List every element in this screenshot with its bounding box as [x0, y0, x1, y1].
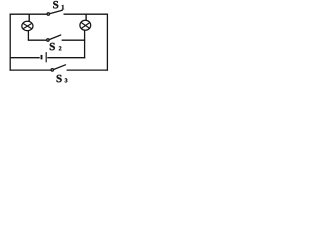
lamp L1 bottom lead — [27, 31, 29, 41]
wire: middle left segment (S2 branch) — [28, 39, 47, 41]
switch S2 terminal — [47, 39, 49, 41]
wire: middle right segment — [62, 39, 86, 41]
wire: top left segment — [10, 13, 47, 15]
wire: left border — [9, 14, 11, 71]
battery negative plate (short thick) — [41, 55, 43, 60]
switch S2 blade — [50, 35, 61, 40]
wire: bottom left segment — [10, 69, 51, 71]
label S3 "S" — [57, 75, 62, 82]
label S3 subscript 3 — [65, 78, 68, 82]
label S2 subscript 2 — [59, 46, 61, 50]
wire: battery left lead — [10, 57, 40, 59]
lamp L2 cross — [81, 22, 90, 28]
lamp L2 bulb — [80, 20, 91, 30]
wire: battery right lead — [47, 57, 85, 59]
switch S1 blade — [50, 10, 62, 13]
switch S3 blade — [54, 65, 66, 70]
switch S1 terminal — [47, 13, 49, 15]
lamp L1 cross — [23, 23, 32, 29]
lamp L1 top lead — [28, 14, 30, 21]
battery positive plate (long thin) — [45, 52, 47, 62]
lamp L2 bottom lead — [84, 30, 86, 58]
label S1 "S" — [53, 1, 58, 8]
background — [0, 0, 120, 87]
switch S3 terminal — [51, 69, 53, 71]
wire: top right segment — [64, 13, 109, 15]
label S1 subscript 1 — [62, 5, 64, 9]
wire: right border — [106, 14, 108, 71]
wire: bottom right segment — [67, 69, 108, 71]
lamp L2 top lead — [85, 14, 87, 20]
lamp L1 bulb — [22, 21, 33, 30]
label S2 "S" — [50, 43, 55, 50]
